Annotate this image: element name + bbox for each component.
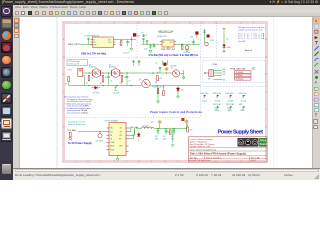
svg-text:7: 7 — [228, 22, 229, 24]
svg-text:R31: R31 — [223, 72, 226, 74]
svg-text:FPGA: FPGA — [260, 140, 267, 143]
svg-text:BST: BST — [120, 135, 123, 137]
svg-text:JP1: JP1 — [208, 79, 211, 81]
svg-text:EN: EN — [93, 42, 95, 44]
svg-text:OUT: OUT — [108, 39, 111, 41]
svg-text:6: 6 — [202, 22, 203, 24]
svg-text:Q3 NTR: Q3 NTR — [171, 65, 178, 67]
svg-text:TCK3000: TCK3000 — [236, 72, 244, 74]
svg-text:A: A — [314, 80, 317, 85]
svg-text:VCC1V2: VCC1V2 — [202, 100, 208, 102]
svg-text:C13: C13 — [145, 35, 148, 37]
svg-text:B: B — [266, 74, 267, 76]
svg-text:22uF: 22uF — [171, 138, 175, 140]
svg-text:2: 2 — [100, 161, 101, 163]
svg-text:D6: D6 — [227, 39, 229, 41]
svg-text:max current draw 1.5A max: max current draw 1.5A max — [67, 112, 88, 115]
svg-text:3.3v Rail (500 mA) on Vbatt /: 3.3v Rail (500 mA) on Vbatt / 3.3v Rail … — [149, 54, 199, 57]
svg-text:VCC3V3: VCC3V3 — [215, 100, 221, 102]
svg-text:R3: R3 — [120, 83, 122, 85]
svg-text:5v 3A Power Supply: 5v 3A Power Supply — [68, 142, 92, 145]
svg-text:C22 100uF: C22 100uF — [96, 141, 104, 143]
svg-text:C33: C33 — [171, 136, 174, 138]
svg-text:FPGA_JTAG_TMS: FPGA_JTAG_TMS — [230, 68, 246, 71]
svg-text:R13: R13 — [167, 131, 170, 133]
svg-text:4: 4 — [151, 161, 152, 163]
svg-text:5: 5 — [177, 161, 178, 163]
svg-text:C12 1uF: C12 1uF — [123, 52, 129, 54]
svg-text:CON1: CON1 — [68, 70, 72, 72]
svg-text:VBUS_PROT: VBUS_PROT — [68, 44, 81, 46]
svg-text:R5: R5 — [65, 84, 67, 86]
svg-text:R1: R1 — [86, 82, 88, 84]
svg-text:IN: IN — [163, 42, 164, 44]
svg-text:5.5mm jack 5V: 5.5mm jack 5V — [68, 64, 80, 66]
svg-text:NTR4502: NTR4502 — [89, 67, 96, 69]
svg-text:cc: cc — [239, 141, 243, 145]
svg-text:R14: R14 — [190, 130, 193, 132]
svg-text:22uF: 22uF — [155, 138, 159, 140]
svg-text:TDI3000: TDI3000 — [236, 75, 243, 77]
svg-text:C2: C2 — [110, 80, 112, 82]
svg-text:ratings for the power rails:: ratings for the power rails: — [238, 28, 264, 31]
svg-text:EN: EN — [110, 135, 112, 137]
svg-text:5V0_RAIL: 5V0_RAIL — [68, 129, 77, 132]
svg-text:5.0 vs 5%: 5.0 vs 5% — [238, 41, 246, 43]
svg-text:R8: R8 — [155, 82, 157, 84]
svg-text:3V3: 3V3 — [252, 67, 255, 69]
svg-text:Id: 2/2: Id: 2/2 — [251, 160, 256, 162]
svg-text:NTR4502: NTR4502 — [109, 67, 116, 69]
svg-text:3V3: 3V3 — [190, 37, 193, 39]
svg-text:Iout max: 3A sync buck: Iout max: 3A sync buck — [68, 123, 86, 126]
svg-text:R30: R30 — [223, 69, 226, 71]
svg-text:U3 NCP3155ADR: U3 NCP3155ADR — [105, 120, 119, 123]
svg-text:D4: D4 — [182, 89, 184, 91]
svg-text:L2 10uH: L2 10uH — [142, 125, 149, 127]
svg-text:Power Inputs Control and Prote: Power Inputs Control and Protections — [150, 111, 203, 114]
svg-text:R9: R9 — [160, 78, 162, 80]
svg-text:R32: R32 — [223, 74, 226, 76]
svg-text:COMP: COMP — [110, 142, 115, 144]
svg-text:+5V0_RAIL: +5V0_RAIL — [130, 126, 139, 129]
svg-text:22uF: 22uF — [163, 138, 167, 140]
svg-text:C15 2.2uF: C15 2.2uF — [183, 52, 190, 54]
svg-text:2: 2 — [100, 22, 101, 24]
svg-text:B: B — [63, 74, 64, 76]
svg-text:C31: C31 — [155, 136, 158, 138]
svg-text:IN: IN — [93, 39, 95, 41]
svg-text:CONN: CONN — [212, 64, 218, 66]
svg-text:C3: C3 — [128, 80, 130, 82]
svg-text:TP3 1.2v ± 5% 0.5A: TP3 1.2v ± 5% 0.5A — [238, 37, 265, 40]
svg-text:10k: 10k — [105, 77, 108, 79]
svg-text:U2 MIC5219: U2 MIC5219 — [157, 36, 167, 38]
svg-text:1: 1 — [75, 161, 76, 163]
svg-text:Q1: Q1 — [89, 64, 91, 66]
svg-text:D5: D5 — [171, 68, 173, 70]
svg-text:VSW: VSW — [119, 146, 123, 148]
svg-text:Q2: Q2 — [109, 64, 111, 66]
svg-text:1: 1 — [75, 22, 76, 24]
svg-text:PWR_PROT_3v3: PWR_PROT_3v3 — [161, 49, 175, 51]
svg-text:R2: R2 — [100, 83, 102, 85]
svg-text:3: 3 — [126, 161, 127, 163]
svg-text:KiCad E.D.A. eeschema: KiCad E.D.A. eeschema — [190, 159, 211, 162]
svg-text:USB 5v1 750 mA Max: USB 5v1 750 mA Max — [81, 53, 107, 56]
svg-text:R33: R33 — [223, 80, 226, 82]
svg-text:1k: 1k — [92, 78, 94, 80]
svg-text:Q4: Q4 — [139, 79, 141, 81]
svg-text:C14: C14 — [144, 48, 147, 50]
svg-text:VIN: VIN — [110, 128, 113, 130]
svg-text:C32: C32 — [163, 136, 166, 138]
svg-text:GND: GND — [239, 104, 242, 106]
svg-text:Blank ok: Blank ok — [245, 50, 252, 52]
svg-text:8: 8 — [253, 22, 254, 24]
svg-text:5: 5 — [177, 22, 178, 24]
svg-text:VCC5V0: VCC5V0 — [241, 100, 247, 102]
svg-text:POWER_GOOD: POWER_GOOD — [152, 86, 165, 88]
svg-text:C4 10uF: C4 10uF — [113, 93, 119, 95]
svg-text:3: 3 — [126, 22, 127, 24]
svg-text:OUT: OUT — [170, 42, 173, 44]
svg-text:Title: LX9A Xilinx FPGA board: Title: LX9A Xilinx FPGA board (Power Sup… — [190, 152, 247, 156]
svg-text:GNDD: GNDD — [241, 110, 245, 112]
svg-text:D2 SS14: D2 SS14 — [93, 93, 99, 95]
svg-text:TP1: TP1 — [151, 122, 154, 124]
svg-text:D7: D7 — [132, 135, 134, 137]
svg-text:FB: FB — [110, 139, 112, 141]
svg-text:Power Supply Sheet: Power Supply Sheet — [218, 130, 264, 136]
svg-text:4: 4 — [151, 22, 152, 24]
svg-text:TDO3000: TDO3000 — [236, 79, 244, 81]
svg-text:Board: Board — [260, 143, 267, 146]
svg-text:F1: F1 — [156, 63, 158, 65]
svg-text:T: T — [314, 113, 317, 117]
